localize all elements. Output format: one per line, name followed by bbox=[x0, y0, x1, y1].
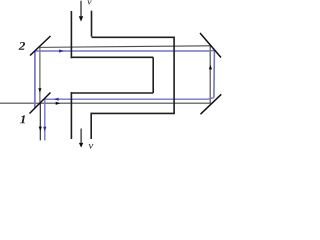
mirror top-right diagonal bbox=[200, 33, 221, 58]
node label 2 bbox=[19, 42, 25, 50]
beam splitter 1 diagonal bbox=[30, 93, 51, 114]
node arrowhead down on black output bbox=[39, 127, 42, 132]
wire blue right vertical: between the two right mirrors bbox=[213, 50, 216, 97]
node arrowhead right on gray input beam bbox=[56, 102, 61, 105]
tube apparatus: inlet right wall bbox=[91, 11, 93, 37]
wire gray beam: input from source through splitter, along bottom tube, turning up at right bbox=[0, 46, 210, 103]
wire blue beam bottom: right mirror back to splitter along bottom tube bbox=[44, 98, 214, 100]
node water inlet flow arrow bbox=[80, 1, 82, 17]
tube apparatus: left wall lower (bottom tube window + outlet left wall) bbox=[70, 92, 72, 139]
node label 1 bbox=[20, 115, 25, 123]
node arrowhead left on blue bottom beam bbox=[54, 98, 59, 101]
tube apparatus: outlet right wall bbox=[90, 113, 92, 139]
tube apparatus: left wall upper (inlet left wall + top tube window) bbox=[70, 11, 72, 58]
node label v top bbox=[87, 0, 91, 4]
wire blue output beam below splitter bbox=[44, 99, 46, 140]
tube apparatus: middle separator bottom edge bbox=[71, 92, 154, 94]
node label v bottom bbox=[89, 144, 94, 149]
wire black output beam below splitter bbox=[39, 103, 41, 140]
wire gray beam top: return ray through top tube toward mirror 2 bbox=[40, 46, 210, 48]
node arrowhead right on blue top beam bbox=[59, 49, 64, 52]
mirror bottom-right diagonal bbox=[201, 94, 222, 114]
node arrowhead down on gray left vertical above splitter bbox=[38, 88, 41, 93]
tube apparatus: middle separator top edge bbox=[71, 56, 154, 58]
node arrowhead down on blue output bbox=[43, 127, 46, 132]
tube apparatus: middle separator right edge bbox=[152, 57, 154, 93]
node water outlet flow arrow bbox=[80, 129, 82, 144]
wire blue left vertical: mirror 2 down to splitter bbox=[34, 52, 36, 109]
tube apparatus: top wall, right outer wall, bottom wall bbox=[91, 37, 174, 113]
wire gray beam left vertical: mirror 2 down to splitter bbox=[39, 46, 41, 103]
wire blue beam top: mirror 2 along top tube to top-right mirror bbox=[35, 49, 214, 52]
node arrowhead up on gray right vertical bbox=[209, 65, 212, 70]
mirror 2 diagonal bbox=[30, 36, 51, 56]
